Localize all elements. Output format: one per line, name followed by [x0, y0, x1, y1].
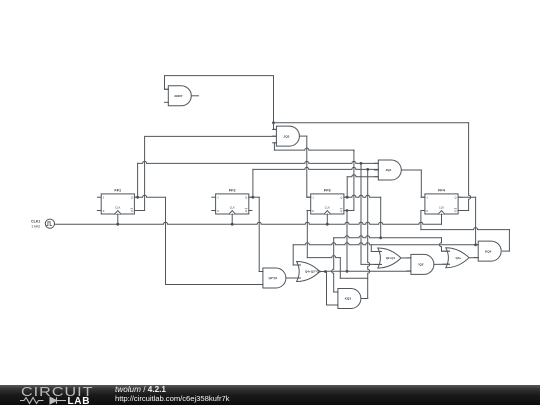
svg-text:Q: Q: [340, 196, 342, 200]
svg-text:Q: Q: [131, 209, 133, 213]
wire Q2 riser: [249, 169, 253, 197]
AND gate JQ4: [375, 160, 402, 180]
svg-text:CLK: CLK: [230, 205, 235, 209]
wire OR output to *Q3' bottom input: [325, 270, 411, 272]
clock source CLK1: [31, 219, 54, 229]
footer bar: [0, 385, 540, 405]
svg-text:CLK: CLK: [115, 205, 120, 209]
wire bus Q2 to JQ4 middle input: [253, 167, 378, 169]
wire Q3 drop: [380, 197, 382, 238]
wire JQ3 bottom input from Q3': [274, 143, 354, 151]
svg-text:CLK1: CLK1: [31, 220, 40, 224]
OR gate Q4+Q2'*Q1': [294, 262, 322, 282]
wire Q3' riser: [353, 151, 355, 211]
svg-text:Q: Q: [454, 196, 456, 200]
resistor zigzag: [20, 398, 44, 404]
wire FF3 Q right branch: [347, 195, 381, 197]
svg-text:Q: Q: [131, 196, 133, 200]
svg-text:FF1: FF1: [114, 188, 121, 192]
wire KQ4 output to FF4 K: [421, 211, 510, 252]
wire Q3 net to KQ3 top input: [332, 238, 338, 292]
svg-text:JQ4: JQ4: [385, 168, 391, 172]
svg-text:Q: Q: [245, 196, 247, 200]
OR gate Q3+: [443, 248, 469, 268]
wire FF2 Q right branch: [253, 196, 259, 198]
AND gate KQ3: [334, 289, 361, 309]
node FF3 CLK junction: [326, 223, 329, 226]
OR gate Q2+Q1: [375, 248, 401, 268]
wire FF4 CLK stub: [441, 214, 443, 224]
AND gate JQ3: [273, 126, 300, 146]
svg-text:Q2*Q1: Q2*Q1: [268, 276, 277, 280]
wire Q2 net bus: [293, 243, 478, 245]
node FF1 CLK junction: [116, 223, 119, 226]
node Q3' junction at FF3 Q': [346, 209, 349, 212]
footer text: [115, 385, 229, 403]
wire Q3 riser to JQ4 bottom input: [344, 175, 378, 198]
node Q3' to OR input line junction: [346, 270, 349, 273]
node FF2 CLK junction: [231, 223, 234, 226]
svg-text:*Q3': *Q3': [418, 263, 424, 267]
svg-text:Q: Q: [454, 209, 456, 213]
svg-text:Q: Q: [245, 209, 247, 213]
wire Q2 net to OR gate top input: [293, 245, 300, 265]
wire Q1 riser: [134, 163, 137, 197]
node Q3 net junction: [379, 236, 382, 239]
wire Q3' drop: [346, 211, 348, 272]
svg-text:AND7: AND7: [174, 94, 183, 98]
wire OR output stub: [320, 271, 326, 273]
CircuitLab logo: [21, 385, 78, 399]
wire *Q3' output to Q3+ bottom input: [434, 263, 450, 265]
flip-flop FF3: [307, 188, 347, 214]
AND gate AND7: [165, 86, 192, 106]
AND gate KQ4: [474, 241, 501, 261]
wire Q2 net to Q2+Q1 top input: [371, 245, 381, 252]
AND gate *Q3': [407, 254, 434, 274]
svg-text:Q4+Q2'*Q1': Q4+Q2'*Q1': [305, 270, 322, 274]
wire FF2 CLK stub: [231, 214, 233, 224]
wire Q2+Q1 output to *Q3' top input: [401, 257, 411, 259]
flip-flop FF2: [212, 188, 252, 214]
node Q1 drop junction: [360, 162, 363, 165]
wire OR output to KQ3 bottom input: [327, 272, 338, 306]
wire AND7 top input to net Q4': [165, 76, 274, 123]
svg-text:K: K: [312, 209, 314, 213]
wire JQ4 output to FF4 J: [402, 170, 425, 197]
node Q4' junction: [272, 121, 275, 124]
svg-text:FF3: FF3: [324, 188, 331, 192]
wire net Q4' horizontal run: [274, 122, 469, 124]
wire FF3 Q' stub: [344, 210, 354, 212]
wire Q3+ output to KQ4 bottom input: [469, 257, 478, 259]
svg-text:Q2+Q1: Q2+Q1: [386, 256, 396, 260]
svg-text:FF4: FF4: [438, 188, 446, 192]
flip-flop FF4: [421, 188, 461, 214]
wire Q1 drop to Q2*Q1 bottom input: [166, 197, 263, 284]
svg-text:Q: Q: [340, 209, 342, 213]
wire Q2 drop to Q2*Q1 top input: [259, 197, 263, 271]
wire Q3 net bus: [334, 236, 442, 238]
svg-text:CLK: CLK: [439, 205, 444, 209]
svg-text:FF2: FF2: [229, 188, 236, 192]
wire FF4 Q to KQ4 top: [458, 197, 476, 245]
svg-text:KQ4: KQ4: [485, 249, 492, 253]
svg-text:CLK: CLK: [325, 205, 330, 209]
svg-text:K: K: [103, 209, 105, 213]
svg-text:Q3+: Q3+: [456, 256, 462, 260]
wire FF1 Q right branch: [138, 195, 166, 197]
wire Q2*Q1 output to OR bottom input: [286, 277, 300, 279]
svg-text:1 kHz: 1 kHz: [31, 225, 40, 229]
wire JQ3 output to FF3 J: [299, 136, 310, 197]
node Q2 drop junction: [366, 168, 369, 171]
wire Q2 drop and KQ3 output riser: [361, 169, 369, 298]
svg-text:KQ3: KQ3: [345, 297, 352, 301]
node Q1 junction at FF1 Q: [136, 196, 139, 199]
wire FF1 Q' to JQ3 middle input: [134, 136, 276, 210]
wire JQ3 top input: [274, 123, 277, 130]
node FF4 Q to KQ4 junction: [474, 243, 477, 246]
svg-text:JQ3: JQ3: [283, 134, 289, 138]
wire Q3 net to Q3+ top input: [440, 238, 450, 251]
node Q3 junction at FF3 Q: [346, 196, 349, 199]
node OR output junction: [324, 270, 327, 273]
wire net Q4' drop to FF4 Q': [458, 123, 471, 211]
wire Q1 drop to Q2+Q1 bottom input: [361, 163, 382, 264]
wire AND7 output stub: [191, 95, 198, 97]
wire FF3 K to KQ3 output: [307, 211, 367, 279]
node Q2 junction at FF2 Q: [252, 196, 255, 199]
wire bus Q1 to JQ4 top input: [138, 161, 379, 163]
AND gate Q2*Q1: [259, 268, 286, 288]
wire CLK bus: [55, 222, 442, 224]
flip-flop FF1: [97, 188, 137, 214]
wire FF3 CLK stub: [326, 214, 328, 224]
wire FF1 CLK stub: [117, 214, 119, 224]
svg-text:K: K: [217, 209, 219, 213]
diode symbol: [50, 398, 57, 405]
svg-text:K: K: [427, 209, 429, 213]
